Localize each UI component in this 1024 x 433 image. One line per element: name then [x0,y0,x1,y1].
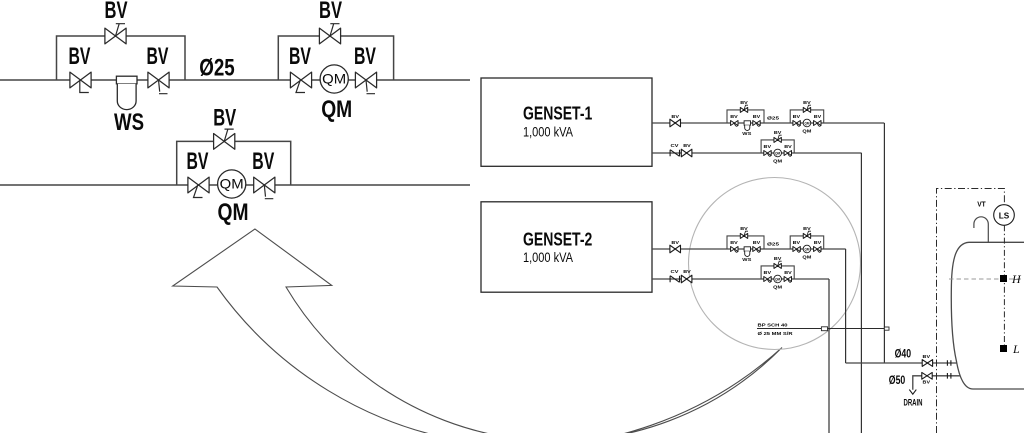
ball valve BV (fill line) [922,360,932,367]
svg-text:Ø25: Ø25 [767,242,779,248]
wire: GENSET-1 supply riser down to tank header [883,123,885,363]
pipe spec break marker (square) on GENSET-2 return riser [821,327,827,331]
ball valve BV (GENSET-1 return) [681,149,692,157]
ball valve BV (mini line right) [784,277,791,283]
svg-text:QM: QM [773,159,782,165]
svg-text:BV: BV [289,43,311,70]
drain arrow [909,390,916,395]
ball valve BV (drain line) [922,372,932,379]
vent pipe VT (gooseneck) [974,217,988,242]
svg-text:QM: QM [804,122,809,126]
svg-text:BV: BV [147,43,169,70]
flow meter QM (circle) [218,170,246,198]
svg-text:BV: BV [69,43,91,70]
ball valve BV (bypass, top) [105,24,126,44]
mini flow meter QM [803,245,811,253]
mini strainer WS [744,247,750,257]
svg-text:CV: CV [671,143,680,149]
svg-text:GENSET-1: GENSET-1 [523,104,592,124]
wire: GENSET-1 return line [652,152,862,154]
svg-text:BV: BV [923,380,931,386]
svg-text:BV: BV [105,0,128,24]
svg-text:1,000 kVA: 1,000 kVA [523,124,573,139]
svg-text:BV: BV [213,105,236,132]
svg-text:QM: QM [775,278,780,282]
svg-text:BV: BV [774,130,782,136]
wire: bypass loop rectangle (meter set) [278,36,393,80]
ball valve BV (bypass, top) [319,24,340,44]
ball valve BV (GENSET-1 supply) [670,119,681,127]
svg-text:BV: BV [319,0,342,24]
wire: mini bypass loop (strainer set) [727,110,764,123]
wire: GENSET-1 supply line [652,122,884,124]
ball valve BV (line, right of meter) [355,72,376,94]
svg-text:DRAIN: DRAIN [904,397,923,408]
ball valve BV (bypass, top) [214,129,235,149]
wire: mini bypass loop (meter set) [790,236,824,249]
svg-text:BV: BV [774,256,782,262]
ball valve BV (mini line right) [814,121,821,127]
svg-text:BV: BV [803,226,811,232]
svg-text:CV: CV [671,269,680,275]
ball valve BV (mini line right) [784,151,791,157]
svg-text:BV: BV [764,270,772,276]
high level sensor H [1000,275,1007,282]
wire: mini bypass loop (meter set) [790,110,824,123]
svg-text:QM: QM [322,71,346,87]
equipment box GENSET-1 [481,78,652,166]
svg-text:VT: VT [977,202,986,209]
wire: mini bypass loop (meter set) [761,266,794,279]
svg-text:WS: WS [114,109,144,136]
mini flow meter QM [803,119,811,127]
level switch LS [994,205,1015,226]
wire: GENSET-2 return line [652,278,829,280]
mini flow meter QM [774,149,782,157]
ball valve BV (mini bypass top) [803,231,811,238]
tank high level dashed line [949,278,1024,280]
ball valve BV (mini line left) [764,277,771,283]
ball valve BV (mini line right) [814,247,821,253]
wire: fuel fill header to tank, diameter 40 [846,362,958,364]
wire: tank drain line, diameter 50 [913,376,962,390]
svg-text:BV: BV [740,100,748,106]
svg-text:BV: BV [683,269,691,275]
svg-text:BV: BV [252,148,274,175]
wire: mini bypass loop (meter set) [761,140,794,153]
ball valve BV (mini bypass top) [774,261,782,268]
ball valve BV (mini line right) [753,247,760,253]
wire: GENSET-2 supply line [652,248,846,250]
ball valve BV (mini line right) [753,121,760,127]
svg-text:Ø40: Ø40 [895,349,912,361]
ball valve BV (mini line left) [764,151,771,157]
svg-text:WS: WS [742,131,752,137]
svg-text:Ø 25 MM S/R: Ø 25 MM S/R [758,331,794,337]
pipe union (fill line) [947,360,951,366]
wire: GENSET-1 return riser down off-page [860,153,862,433]
ball valve BV (line, right of meter) [254,177,275,199]
ball valve BV (GENSET-2 supply) [670,245,681,253]
svg-text:WS: WS [742,257,752,263]
svg-text:BV: BV [803,100,811,106]
wire: mini bypass loop (strainer set) [727,236,764,249]
ball valve BV (mini line left) [793,121,800,127]
ball valve BV (GENSET-2 return) [681,275,692,283]
svg-text:Ø25: Ø25 [767,116,779,122]
ball valve BV (line, right of strainer) [148,72,169,94]
svg-text:QM: QM [220,176,244,192]
wire: blow-up main pipe line 1 [0,79,470,81]
svg-text:GENSET-2: GENSET-2 [523,230,592,250]
low level sensor L [1000,345,1007,352]
svg-text:QM: QM [804,248,809,252]
mini strainer WS [744,121,750,131]
ball valve BV (line, left of strainer) [70,72,91,92]
svg-text:BV: BV [187,148,209,175]
ball valve BV (mini bypass top) [740,231,748,238]
svg-text:QM: QM [775,152,780,156]
svg-text:BV: BV [764,144,772,150]
ball valve BV (mini line left) [793,247,800,253]
wire: bypass loop rectangle (strainer set) [57,36,186,80]
svg-text:BV: BV [784,270,792,276]
svg-text:BV: BV [683,143,691,149]
wire: GENSET-2 return riser down off-page [828,279,830,433]
strainer WS [116,76,137,109]
svg-text:Ø25: Ø25 [199,55,235,82]
svg-text:BP SCH 40: BP SCH 40 [758,323,788,329]
svg-text:BV: BV [753,240,761,246]
svg-text:BV: BV [814,114,822,120]
ball valve BV (mini bypass top) [803,105,811,112]
svg-text:QM: QM [802,129,811,135]
svg-text:BV: BV [784,144,792,150]
svg-text:BV: BV [354,43,376,70]
detail reference circle around GENSET-2 piping [689,178,861,350]
svg-text:1,000 kVA: 1,000 kVA [523,250,573,265]
svg-text:L: L [1012,342,1020,356]
fuel day tank shell [951,242,1024,389]
ball valve BV (mini line left) [731,247,738,253]
signal line LS to level sensors (dash-dot) [1003,225,1005,345]
svg-text:BV: BV [793,240,801,246]
equipment box GENSET-2 [481,202,652,292]
svg-text:Ø50: Ø50 [889,375,906,387]
ball valve BV (mini line left) [731,121,738,127]
svg-text:H: H [1011,272,1022,286]
svg-text:BV: BV [923,354,931,360]
pipe union (drain line) [947,373,951,379]
svg-text:BV: BV [814,240,822,246]
svg-text:BV: BV [730,240,738,246]
mini flow meter QM [774,275,782,283]
wire: bypass loop rectangle (meter set) [177,141,291,185]
blow-up reference arrow (curved block arrow) [173,229,782,433]
svg-text:BV: BV [671,240,679,246]
ball valve BV (line, left of meter) [188,177,209,197]
flow meter QM (circle) [320,65,348,93]
pipe spec break marker (square) on GENSET-1 supply riser [884,327,889,330]
check valve CV (GENSET-1 return) [670,150,679,157]
svg-text:BV: BV [671,114,679,120]
wire: blow-up main pipe line 2 [0,184,470,186]
wire: GENSET-2 supply riser down to tank header [845,249,847,363]
svg-text:QM: QM [773,285,782,291]
svg-text:BV: BV [740,226,748,232]
svg-text:BV: BV [793,114,801,120]
svg-text:QM: QM [321,96,352,123]
ball valve BV (line, left of meter) [290,72,311,92]
check valve CV (GENSET-2 return) [670,276,679,283]
ball valve BV (mini bypass top) [740,105,748,112]
svg-text:LS: LS [999,211,1010,221]
svg-text:QM: QM [802,255,811,261]
battery-limit boundary (dash-dot) [937,189,1005,433]
svg-text:BV: BV [753,114,761,120]
ball valve BV (mini bypass top) [774,135,782,142]
svg-text:QM: QM [218,199,249,226]
svg-text:BV: BV [730,114,738,120]
